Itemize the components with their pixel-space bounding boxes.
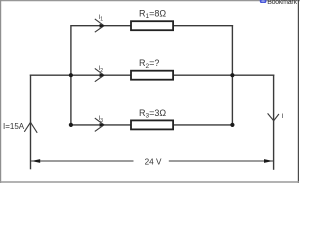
wire: middle branch left segment (30, 74, 131, 76)
node junction dot left-middle (69, 73, 73, 77)
svg-text:24 V: 24 V (145, 157, 162, 166)
voltage dimension arrowhead left (31, 159, 40, 163)
node junction dot right-bottom (230, 123, 234, 127)
resistor R2 body (131, 71, 173, 80)
frame right border (297, 0, 299, 183)
svg-text:Bookmark: Bookmark (267, 0, 297, 6)
svg-text:I=15A: I=15A (3, 122, 25, 131)
voltage dimension line left segment (31, 160, 134, 162)
frame top border (0, 0, 300, 2)
wire: right output wire vertical (273, 75, 275, 170)
resistor R3 body (131, 120, 173, 129)
wire: right bus vertical (231, 25, 233, 125)
current arrowhead I1 (100, 24, 105, 28)
svg-text:I1: I1 (99, 15, 104, 23)
wire: top branch left segment (71, 25, 131, 27)
frame left border (0, 0, 2, 183)
wire: bottom branch right segment (173, 124, 232, 126)
current arrow chevron up on left wire (24, 122, 37, 133)
current arrow chevron I2 (95, 68, 104, 81)
current arrowhead I2 (100, 73, 105, 77)
svg-text:I: I (282, 113, 284, 120)
current arrow chevron I1 (95, 19, 104, 32)
wire: left bus vertical (70, 25, 72, 125)
node junction dot left-bottom (69, 123, 73, 127)
voltage dimension line right segment (169, 160, 273, 162)
bookmark icon (clipped at top) (260, 0, 267, 3)
wire: left source wire vertical (30, 75, 32, 170)
voltage dimension arrowhead right (264, 159, 273, 163)
frame bottom border (0, 181, 299, 183)
svg-text:I3: I3 (99, 116, 104, 124)
current arrowhead I3 (100, 123, 105, 127)
svg-text:I2: I2 (99, 66, 104, 74)
node junction dot right-middle (230, 73, 234, 77)
wire: bottom branch left segment (71, 124, 131, 126)
current arrow chevron I3 (95, 118, 104, 131)
current arrow chevron down on right wire (268, 113, 279, 120)
wire: middle branch right segment (173, 74, 274, 76)
wire: top branch right segment (173, 25, 233, 27)
resistor R1 body (131, 21, 173, 30)
